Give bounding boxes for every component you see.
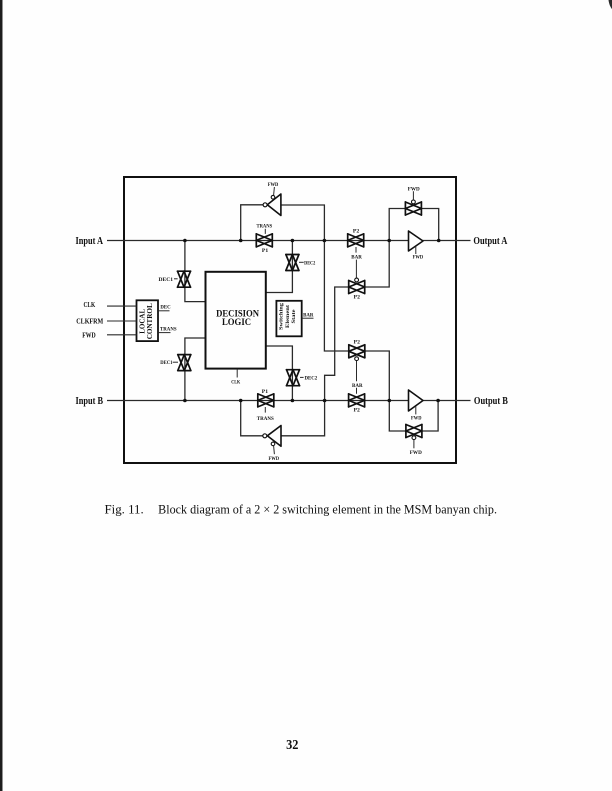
- Switching Element State box: [276, 301, 301, 337]
- scan edge artifact left: [0, 0, 3, 791]
- svg-text:P1: P1: [262, 248, 269, 254]
- output stub TRANS of local control: [158, 326, 176, 332]
- svg-text:LOCAL: LOCAL: [139, 308, 146, 333]
- CLK stub under decision logic: [231, 369, 240, 386]
- wire gate P2-cross-AB right terminal down to B output node: [365, 351, 407, 431]
- label DEC1 upper with dash: [159, 277, 178, 283]
- svg-text:FWD: FWD: [82, 331, 96, 339]
- svg-text:CLK: CLK: [84, 301, 96, 309]
- bubble under cross gate A-to-B: [355, 357, 359, 361]
- svg-text:P1: P1: [262, 389, 269, 395]
- label DEC1 lower with dash: [160, 360, 178, 366]
- control tick and labels TRANS / P1 for gate P1-A: [257, 223, 273, 254]
- svg-text:DEC2: DEC2: [305, 375, 318, 381]
- bubble under bypass-B gate: [412, 436, 416, 440]
- svg-text:CLK: CLK: [231, 379, 240, 385]
- svg-text:Output B: Output B: [474, 396, 508, 407]
- labels P1 / TRANS and tick for gate P1-B: [257, 389, 274, 422]
- control wire and label FWD for bypass-B: [410, 440, 422, 456]
- svg-text:P2: P2: [354, 340, 361, 346]
- wire DEC2 lower branch: decision logic down to B line: [266, 346, 293, 401]
- tri-state inverter reverse B: [263, 426, 281, 462]
- svg-text:Switching: Switching: [278, 303, 284, 330]
- svg-text:P2: P2: [354, 408, 361, 414]
- wire inverter-A output to A line: [241, 205, 264, 241]
- wire inverter-B output to B line: [241, 401, 263, 436]
- svg-text:FWD: FWD: [410, 450, 422, 456]
- svg-text:FWD: FWD: [413, 255, 424, 261]
- svg-text:Block diagram of a 2 × 2 switc: Block diagram of a 2 × 2 switching eleme…: [158, 503, 497, 517]
- control wire and label FWD for bypass-A: [408, 186, 420, 200]
- wire Input A horizontal line: [107, 240, 471, 242]
- output stub DEC of local control: [158, 304, 170, 311]
- svg-text:DEC1: DEC1: [159, 277, 174, 283]
- vertical pass gate DEC1 upper: [178, 271, 191, 287]
- output stub BAR of switching element state: [302, 313, 315, 319]
- bubble on top of bypass-A gate: [412, 200, 416, 204]
- wire DEC2 upper branch: A line down to decision logic: [266, 241, 293, 293]
- figure caption: [105, 503, 498, 517]
- svg-text:LOGIC: LOGIC: [222, 317, 251, 328]
- buffer B forward triangle: [409, 390, 424, 421]
- wire bypass-B right terminal up to B output: [421, 401, 438, 432]
- LOCAL CONTROL box: [137, 300, 159, 341]
- pass gate P2 cross B-to-A with bubble: [349, 281, 365, 294]
- scan artifact top-right corner: [609, 0, 612, 9]
- svg-text:BAR: BAR: [303, 313, 314, 319]
- wire DEC1 lower branch: decision logic down to B line: [185, 338, 206, 401]
- bubble on top of cross gate B-to-A: [355, 278, 359, 282]
- svg-text:DEC: DEC: [160, 304, 170, 310]
- outer frame: [124, 177, 456, 463]
- svg-text:State: State: [291, 309, 297, 324]
- svg-text:DEC1: DEC1: [160, 360, 172, 366]
- svg-text:BAR: BAR: [352, 383, 363, 389]
- control input CLK wire and label: [84, 301, 137, 309]
- svg-text:P2: P2: [353, 229, 360, 235]
- control input FWD wire and label: [82, 331, 136, 339]
- wire bypass-A right terminal down to A output: [421, 209, 439, 241]
- svg-text:Fig. 11.: Fig. 11.: [105, 503, 144, 517]
- tri-state inverter reverse A: [263, 182, 281, 216]
- wire gate P2-cross-BA left terminal to B node and inverter-B input: [281, 287, 349, 436]
- svg-text:FWD: FWD: [411, 415, 422, 421]
- DECISION LOGIC box: [206, 272, 266, 369]
- pass gate P2 on line A: [348, 234, 364, 247]
- svg-text:TRANS: TRANS: [257, 223, 273, 229]
- svg-text:Input B: Input B: [76, 396, 104, 407]
- vertical pass gate DEC2 upper: [286, 255, 299, 271]
- control wire BAR between cross gate and P2-B gate: [352, 361, 363, 394]
- buffer A forward triangle: [409, 231, 424, 261]
- node junction dots on B line: [183, 399, 440, 403]
- svg-text:TRANS: TRANS: [160, 326, 177, 332]
- svg-text:FWD: FWD: [408, 186, 420, 192]
- label DEC2 lower with dash: [300, 375, 317, 381]
- svg-text:32: 32: [286, 737, 299, 752]
- vertical pass gate DEC2 lower: [287, 370, 300, 386]
- label DEC2 upper with dash: [299, 260, 315, 266]
- node junction dots on A line: [183, 239, 440, 243]
- vertical pass gate DEC1 lower: [178, 355, 191, 371]
- svg-text:BAR: BAR: [351, 255, 362, 261]
- svg-text:TRANS: TRANS: [257, 416, 274, 422]
- svg-text:FWD: FWD: [269, 456, 280, 462]
- svg-text:P2: P2: [354, 294, 361, 300]
- svg-text:Input A: Input A: [76, 236, 104, 247]
- svg-text:FWD: FWD: [268, 182, 279, 188]
- svg-text:CLKFRM: CLKFRM: [76, 317, 103, 325]
- pass gate FWD bypass on output B with bubble: [406, 425, 422, 438]
- pass gate P2 cross A-to-B with bubble: [349, 345, 365, 358]
- svg-text:CONTROL: CONTROL: [147, 303, 154, 339]
- labels P2 / BAR for gate P2-A: [351, 229, 362, 279]
- svg-text:Element: Element: [285, 305, 291, 328]
- pass gate P1 on line B: [258, 394, 274, 407]
- svg-text:Output A: Output A: [473, 236, 508, 247]
- wire DEC1 upper branch: A line down to decision logic: [185, 241, 206, 302]
- control input CLKFRM wire and label: [76, 317, 136, 325]
- wire gate P2-cross-BA right terminal up to A output node: [365, 209, 406, 288]
- wire Input B horizontal line: [107, 400, 471, 402]
- pass gate P1 on line A: [256, 234, 272, 247]
- svg-text:DEC2: DEC2: [304, 260, 315, 266]
- pass gate P2 on line B: [349, 394, 365, 407]
- wire inverter-A input from A node down to gate P2-cross-AB: [281, 205, 349, 351]
- pass gate FWD bypass on output A with bubble: [405, 202, 421, 215]
